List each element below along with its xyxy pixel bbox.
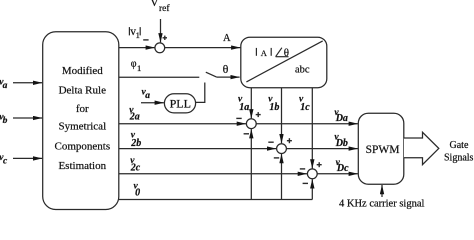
minus sign S4 bottom bbox=[303, 182, 308, 184]
svg-text:Estimation: Estimation bbox=[58, 160, 106, 172]
summer S3 bbox=[277, 144, 287, 154]
wire v_1b: abc to summer S3 bbox=[281, 88, 283, 144]
label v_Db bbox=[334, 133, 348, 149]
block U1: Modified Delta Rule estimator bbox=[43, 32, 119, 210]
svg-text:abc: abc bbox=[295, 65, 310, 76]
svg-text:1a: 1a bbox=[239, 102, 249, 113]
svg-text:Delta Rule: Delta Rule bbox=[59, 85, 106, 97]
wire |v1| to summer bbox=[119, 47, 155, 49]
label v_Dc bbox=[336, 158, 350, 174]
label v_2b bbox=[130, 130, 141, 149]
wire V_ref to summer bbox=[160, 19, 162, 42]
wire v_Da: S2 to SPWM bbox=[256, 123, 358, 125]
label v_1a bbox=[238, 95, 249, 114]
minus sign S2 left bbox=[236, 117, 241, 119]
wire phi1 from U1 bbox=[119, 76, 200, 78]
wire v_0 riser to S2 bbox=[250, 129, 252, 199]
minus sign S3 left bbox=[268, 141, 273, 143]
svg-text:a: a bbox=[3, 81, 8, 91]
wire v_1c: abc to summer S4 bbox=[311, 88, 313, 169]
label v_a at PLL bbox=[142, 87, 151, 101]
svg-text:a: a bbox=[145, 91, 150, 101]
wire v_0 bus bbox=[119, 199, 312, 201]
input label v_a bbox=[0, 77, 8, 91]
wire v_Db: S3 to SPWM bbox=[286, 148, 358, 150]
svg-text:1: 1 bbox=[137, 63, 141, 73]
wire v_2c: U1 to summer S4 bbox=[119, 173, 307, 175]
svg-text:0: 0 bbox=[135, 188, 140, 199]
wire input v_c bbox=[13, 157, 42, 159]
block U2: polar to abc converter bbox=[241, 37, 327, 87]
minus sign S3 bottom bbox=[274, 157, 279, 159]
block PLL bbox=[164, 94, 195, 113]
wire PLL output to switch bbox=[196, 83, 205, 103]
svg-text:Gate: Gate bbox=[450, 140, 469, 151]
label carrier bbox=[339, 199, 425, 210]
svg-text:4 KHz carrier signal: 4 KHz carrier signal bbox=[339, 199, 425, 210]
minus sign S2 bottom bbox=[244, 133, 249, 135]
svg-text:2a: 2a bbox=[129, 112, 140, 123]
svg-text:φ: φ bbox=[131, 59, 137, 70]
diagonal divider of U2 bbox=[246, 41, 322, 82]
wire v_0 riser to S3 bbox=[281, 154, 283, 200]
label v_2c bbox=[130, 156, 141, 174]
plus sign S2 bbox=[256, 112, 261, 117]
switch SW1 blade bbox=[206, 72, 217, 77]
svg-text:A: A bbox=[223, 33, 231, 44]
label v_1b bbox=[268, 95, 279, 114]
svg-text:SPWM: SPWM bbox=[366, 144, 400, 156]
wire v_1a: abc to summer S2 bbox=[250, 88, 252, 119]
minus sign S1 bbox=[143, 39, 148, 41]
svg-text:for: for bbox=[76, 103, 89, 115]
svg-text:Modified: Modified bbox=[62, 65, 103, 77]
label PLL text bbox=[170, 97, 191, 111]
label SPWM text bbox=[366, 144, 400, 156]
svg-text:ref: ref bbox=[159, 3, 170, 14]
wire carrier to SPWM bbox=[381, 185, 383, 197]
svg-text:Symetrical: Symetrical bbox=[58, 121, 106, 133]
plus sign S4 bbox=[317, 162, 322, 167]
label Gate Signals bbox=[444, 140, 474, 164]
wire v_0 riser to S4 bbox=[311, 179, 313, 199]
plus sign S3 bbox=[287, 138, 292, 143]
label A bbox=[223, 33, 231, 44]
svg-text:Da: Da bbox=[335, 113, 348, 124]
wire input v_a bbox=[13, 82, 42, 84]
wire v_2a: U1 to summer S2 bbox=[119, 123, 246, 125]
label theta in U2 bbox=[284, 47, 289, 59]
svg-text:c: c bbox=[3, 157, 8, 167]
block SPWM bbox=[358, 113, 404, 184]
gate signals block arrow bbox=[404, 132, 439, 164]
svg-text:Dc: Dc bbox=[336, 163, 349, 174]
wire A: summer to abc block bbox=[165, 47, 241, 49]
input label v_c bbox=[0, 153, 8, 167]
svg-text:b: b bbox=[3, 116, 8, 126]
label v_1c bbox=[299, 95, 310, 114]
svg-text:1: 1 bbox=[136, 30, 140, 40]
angle symbol bbox=[276, 48, 289, 57]
svg-text:1b: 1b bbox=[269, 102, 279, 113]
label |A| bbox=[261, 48, 268, 58]
label v_2a bbox=[129, 105, 140, 122]
wire v_Dc: S4 to SPWM bbox=[317, 173, 358, 175]
svg-text:1c: 1c bbox=[300, 102, 310, 113]
summer S1 bbox=[155, 43, 165, 53]
wire theta: switch to abc block bbox=[217, 76, 240, 78]
wire v_2b: U1 to summer S3 bbox=[119, 148, 276, 150]
label |v1| bbox=[130, 26, 140, 40]
svg-text:V: V bbox=[150, 0, 159, 9]
svg-text:Db: Db bbox=[335, 138, 348, 149]
label v_Da bbox=[334, 108, 348, 124]
svg-text:θ: θ bbox=[223, 62, 229, 76]
svg-text:2b: 2b bbox=[130, 138, 141, 149]
label U1 text bbox=[54, 65, 110, 172]
svg-text:Components: Components bbox=[54, 141, 110, 153]
label abc bbox=[295, 65, 310, 76]
svg-text:Signals: Signals bbox=[444, 153, 474, 164]
wire input v_b bbox=[13, 117, 42, 119]
input label v_b bbox=[0, 113, 8, 127]
svg-text:PLL: PLL bbox=[170, 97, 191, 111]
minus sign S4 left bbox=[300, 168, 305, 170]
wire v_a to PLL bbox=[141, 102, 164, 104]
summer S4 bbox=[307, 169, 317, 179]
summer S2 bbox=[246, 119, 256, 129]
label V_ref bbox=[150, 0, 170, 14]
label theta bbox=[223, 62, 229, 76]
svg-text:2c: 2c bbox=[130, 162, 141, 173]
label v_0 bbox=[134, 182, 141, 199]
plus sign S1 bbox=[163, 36, 167, 40]
svg-text:A: A bbox=[261, 48, 268, 58]
svg-text:θ: θ bbox=[284, 47, 289, 59]
label phi1 bbox=[131, 59, 142, 73]
